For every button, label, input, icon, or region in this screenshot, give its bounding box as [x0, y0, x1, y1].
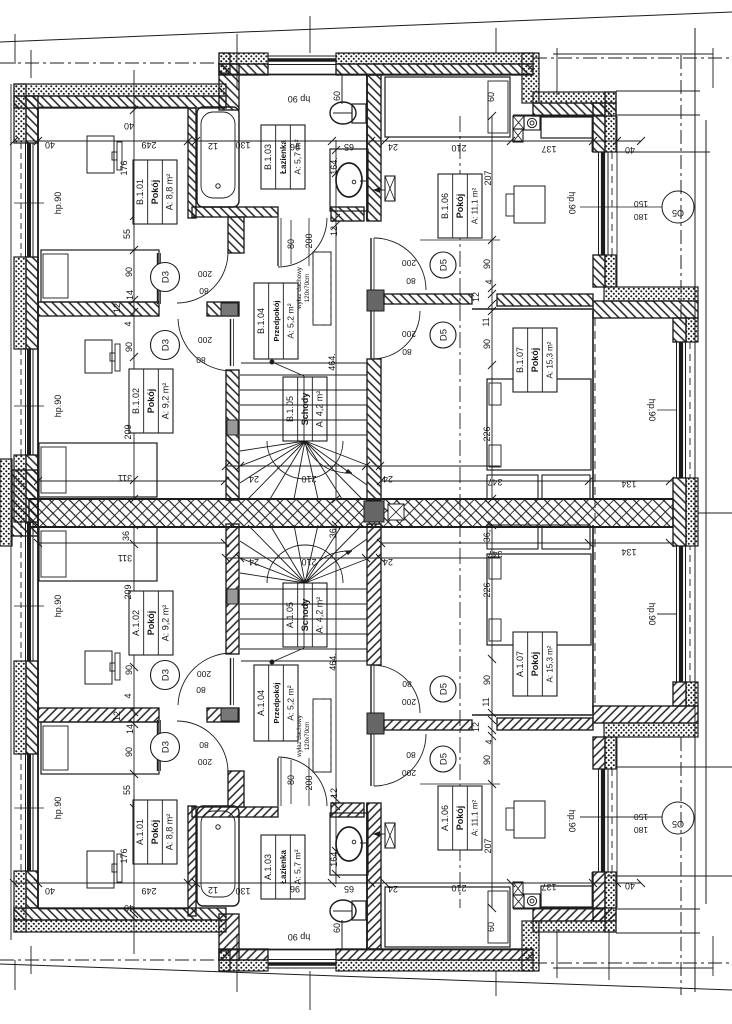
svg-text:90: 90	[124, 342, 134, 352]
svg-text:D5: D5	[439, 683, 450, 695]
svg-text:207: 207	[483, 170, 493, 185]
svg-text:11: 11	[481, 317, 491, 326]
svg-text:137: 137	[541, 882, 556, 892]
svg-text:B.1.04: B.1.04	[256, 308, 266, 334]
svg-text:Przedpokój: Przedpokój	[272, 301, 281, 342]
svg-text:200: 200	[198, 335, 212, 345]
svg-text:210: 210	[451, 883, 466, 893]
svg-text:200: 200	[402, 329, 416, 339]
svg-text:24: 24	[249, 557, 259, 567]
svg-text:249: 249	[141, 886, 156, 896]
svg-text:80: 80	[196, 685, 206, 695]
svg-text:hp.90: hp.90	[53, 595, 63, 618]
svg-text:80: 80	[286, 775, 296, 785]
svg-text:120x70cm: 120x70cm	[304, 722, 311, 751]
svg-text:150: 150	[634, 199, 648, 209]
svg-text:Pokój: Pokój	[530, 652, 540, 677]
svg-text:130: 130	[235, 886, 250, 896]
svg-text:24: 24	[249, 474, 259, 484]
svg-text:60: 60	[332, 923, 342, 933]
svg-text:200: 200	[402, 697, 416, 707]
svg-text:Pokój: Pokój	[150, 180, 160, 205]
svg-text:12: 12	[208, 141, 218, 151]
svg-text:12: 12	[329, 226, 339, 236]
svg-text:347: 347	[487, 477, 502, 487]
svg-text:11: 11	[481, 697, 491, 706]
svg-text:4: 4	[484, 739, 494, 744]
svg-text:Łazienka: Łazienka	[279, 850, 288, 884]
svg-text:60: 60	[486, 92, 496, 102]
svg-text:wyłaz dachowy: wyłaz dachowy	[296, 266, 303, 310]
svg-text:40: 40	[625, 145, 635, 155]
svg-text:12: 12	[471, 722, 481, 732]
svg-text:180: 180	[634, 825, 648, 835]
svg-text:60: 60	[486, 922, 496, 932]
svg-text:A: 15,3 m²: A: 15,3 m²	[545, 341, 554, 378]
svg-text:80: 80	[402, 679, 412, 689]
svg-text:A.1.06: A.1.06	[440, 805, 450, 831]
svg-text:96: 96	[290, 142, 300, 152]
svg-text:80: 80	[402, 347, 412, 357]
svg-text:12: 12	[112, 303, 122, 313]
svg-text:A: 9,2 m²: A: 9,2 m²	[160, 383, 170, 420]
svg-text:210: 210	[451, 143, 466, 153]
svg-text:311: 311	[118, 473, 132, 483]
svg-text:Pokój: Pokój	[146, 389, 156, 414]
svg-text:65: 65	[344, 142, 354, 152]
svg-text:200: 200	[198, 269, 212, 279]
svg-text:14: 14	[125, 290, 135, 300]
svg-text:90: 90	[482, 755, 492, 765]
svg-text:226: 226	[482, 426, 492, 441]
svg-text:D3: D3	[161, 669, 172, 681]
svg-text:80: 80	[406, 276, 416, 286]
svg-text:hp.90: hp.90	[647, 399, 657, 422]
svg-text:A.1.03: A.1.03	[263, 854, 273, 880]
svg-text:hp 90: hp 90	[288, 932, 311, 942]
svg-text:150: 150	[634, 812, 648, 822]
svg-text:A: 5,2 m²: A: 5,2 m²	[285, 685, 295, 720]
svg-text:B.1.03: B.1.03	[263, 144, 273, 170]
svg-text:Pokój: Pokój	[146, 611, 156, 636]
svg-text:O5: O5	[672, 819, 684, 829]
svg-text:200: 200	[198, 757, 212, 767]
svg-text:B.1.02: B.1.02	[131, 388, 141, 414]
svg-text:90: 90	[124, 747, 134, 757]
svg-text:B.1.07: B.1.07	[515, 347, 525, 373]
svg-text:347: 347	[487, 549, 502, 559]
svg-text:40: 40	[45, 140, 55, 150]
svg-text:A: 4,2 m²: A: 4,2 m²	[314, 391, 324, 428]
svg-text:D5: D5	[439, 259, 450, 271]
svg-text:A: 8,8 m²: A: 8,8 m²	[164, 814, 174, 851]
svg-text:Schody: Schody	[300, 599, 310, 632]
svg-text:36.: 36.	[328, 526, 338, 539]
svg-text:12: 12	[329, 788, 339, 798]
svg-text:Pokój: Pokój	[455, 806, 465, 831]
svg-text:hp.90: hp.90	[53, 797, 63, 820]
svg-text:wyłaz dachowy: wyłaz dachowy	[296, 714, 303, 758]
svg-text:D5: D5	[439, 753, 450, 765]
svg-text:210: 210	[301, 474, 316, 484]
svg-text:226: 226	[482, 582, 492, 597]
svg-text:134: 134	[621, 479, 636, 489]
svg-text:40: 40	[124, 903, 134, 913]
svg-text:B.1.01: B.1.01	[135, 179, 145, 205]
svg-text:B.1.06: B.1.06	[440, 193, 450, 219]
svg-text:A: 15,3 m²: A: 15,3 m²	[545, 645, 554, 682]
svg-text:12: 12	[112, 711, 122, 721]
svg-text:A.1.02: A.1.02	[131, 610, 141, 636]
svg-text:176: 176	[119, 848, 129, 863]
svg-text:80: 80	[286, 239, 296, 249]
svg-text:A: 5,7 m²: A: 5,7 m²	[292, 849, 302, 884]
svg-text:137: 137	[541, 144, 556, 154]
svg-text:A: 4,2 m²: A: 4,2 m²	[314, 597, 324, 634]
svg-text:hp.90: hp.90	[53, 192, 63, 215]
svg-text:24: 24	[383, 557, 393, 567]
svg-text:36: 36	[121, 531, 131, 541]
svg-text:A.1.07: A.1.07	[515, 651, 525, 677]
svg-text:80: 80	[199, 286, 209, 296]
svg-text:200: 200	[304, 775, 314, 790]
svg-text:40: 40	[625, 881, 635, 891]
svg-text:96: 96	[290, 884, 300, 894]
svg-text:D5: D5	[439, 329, 450, 341]
svg-text:36,: 36,	[482, 530, 492, 543]
svg-text:D3: D3	[161, 271, 172, 283]
svg-text:311: 311	[118, 553, 132, 563]
svg-text:209: 209	[123, 584, 133, 599]
svg-text:B.1.05: B.1.05	[285, 396, 295, 422]
svg-text:200: 200	[402, 258, 416, 268]
svg-text:90: 90	[124, 267, 134, 277]
svg-text:A: 5,2 m²: A: 5,2 m²	[285, 303, 295, 338]
svg-text:176: 176	[119, 160, 129, 175]
svg-text:65: 65	[344, 884, 354, 894]
svg-text:209: 209	[123, 424, 133, 439]
svg-text:A: 11,1 m²: A: 11,1 m²	[470, 800, 479, 837]
svg-text:14: 14	[125, 724, 135, 734]
svg-text:Schody: Schody	[300, 393, 310, 426]
svg-text:Łazienka: Łazienka	[279, 140, 288, 174]
svg-text:210: 210	[301, 557, 316, 567]
svg-text:164.: 164.	[329, 849, 339, 867]
svg-text:200: 200	[304, 233, 314, 248]
svg-text:4: 4	[484, 279, 494, 284]
svg-text:hp.90: hp.90	[567, 192, 577, 215]
svg-text:Pokój: Pokój	[455, 194, 465, 219]
svg-text:24: 24	[388, 884, 398, 894]
svg-text:90: 90	[482, 339, 492, 349]
svg-text:90: 90	[482, 259, 492, 269]
svg-text:464.: 464.	[328, 653, 338, 671]
svg-text:Pokój: Pokój	[150, 820, 160, 845]
svg-text:4: 4	[123, 321, 133, 326]
svg-text:4: 4	[123, 693, 133, 698]
svg-text:hp.90: hp.90	[53, 395, 63, 418]
svg-text:207: 207	[483, 838, 493, 853]
svg-text:A.1.01: A.1.01	[135, 819, 145, 845]
svg-text:80: 80	[199, 740, 209, 750]
svg-text:200: 200	[197, 669, 211, 679]
svg-text:80: 80	[196, 355, 206, 365]
svg-text:40: 40	[124, 121, 134, 131]
svg-text:12: 12	[471, 292, 481, 302]
svg-text:A: 8,8 m²: A: 8,8 m²	[164, 174, 174, 211]
svg-text:55: 55	[122, 785, 132, 795]
svg-text:A: 11,1 m²: A: 11,1 m²	[470, 188, 479, 225]
svg-text:24: 24	[383, 474, 393, 484]
svg-text:90: 90	[482, 675, 492, 685]
svg-text:hp 90: hp 90	[288, 94, 311, 104]
svg-text:40: 40	[45, 886, 55, 896]
svg-text:Pokój: Pokój	[530, 348, 540, 373]
svg-text:80: 80	[406, 750, 416, 760]
svg-text:120x70cm: 120x70cm	[304, 274, 311, 303]
svg-text:D3: D3	[161, 741, 172, 753]
svg-text:A: 9,2 m²: A: 9,2 m²	[160, 605, 170, 642]
svg-text:hp.90: hp.90	[647, 603, 657, 626]
svg-text:24: 24	[388, 142, 398, 152]
svg-text:134: 134	[621, 547, 636, 557]
svg-text:164.: 164.	[329, 157, 339, 175]
svg-text:60: 60	[332, 91, 342, 101]
svg-text:90: 90	[124, 665, 134, 675]
svg-text:464.: 464.	[327, 353, 337, 371]
svg-text:Przedpokój: Przedpokój	[272, 683, 281, 724]
svg-text:55: 55	[122, 229, 132, 239]
svg-text:130: 130	[235, 140, 250, 150]
svg-text:A.1.05: A.1.05	[285, 602, 295, 628]
svg-text:180: 180	[634, 212, 648, 222]
svg-text:200: 200	[402, 768, 416, 778]
svg-text:A.1.04: A.1.04	[256, 690, 266, 716]
svg-text:D3: D3	[161, 339, 172, 351]
svg-text:O5: O5	[672, 208, 684, 218]
svg-text:249: 249	[141, 140, 156, 150]
svg-text:hp.90: hp.90	[567, 810, 577, 833]
svg-text:12: 12	[208, 885, 218, 895]
